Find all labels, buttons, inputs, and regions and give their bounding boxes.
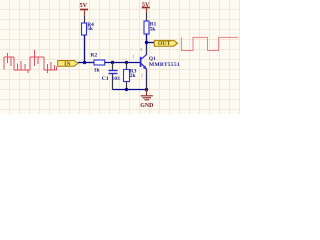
wire collector — [146, 43, 148, 55]
wire power to R1 — [146, 13, 148, 21]
resistor R4 — [82, 22, 95, 35]
resistor R3 — [124, 63, 137, 90]
svg-text:OUT: OUT — [158, 41, 171, 47]
svg-text:IN: IN — [64, 61, 71, 67]
wire R1 to OUT node — [146, 34, 148, 43]
svg-text:1k: 1k — [94, 67, 101, 73]
node IN junction — [83, 61, 86, 64]
capacitor C1 — [102, 63, 120, 90]
wire R2 to base — [105, 62, 141, 64]
svg-text:GND: GND — [140, 103, 153, 109]
transistor Q1 — [141, 55, 180, 70]
node GND junction — [145, 88, 148, 91]
resistor R2 — [90, 53, 104, 74]
svg-text:5k: 5k — [87, 26, 93, 32]
wire R4 to IN node — [84, 35, 86, 63]
svg-text:C1: C1 — [102, 76, 109, 82]
power 5V (left) — [80, 2, 88, 16]
node C1 junction — [111, 61, 114, 64]
port OUT — [154, 40, 177, 47]
node R3-rail junction — [125, 88, 128, 91]
svg-text:MMBT5551: MMBT5551 — [149, 62, 180, 68]
wire IN to R2 — [78, 62, 94, 64]
wire emitter to rail — [146, 69, 148, 89]
svg-text:2: 2 — [141, 73, 143, 78]
power 5V (right) — [142, 1, 150, 13]
svg-text:1: 1 — [132, 54, 134, 59]
port IN — [58, 61, 78, 68]
node OUT junction — [145, 41, 148, 44]
svg-text:2k: 2k — [130, 73, 136, 79]
svg-text:R2: R2 — [90, 53, 97, 59]
node R3 junction — [125, 61, 128, 64]
clean output waveform — [181, 37, 238, 50]
svg-text:103: 103 — [111, 76, 120, 82]
wire to OUT port — [147, 42, 155, 44]
wire power to R4 — [84, 16, 86, 23]
svg-text:3: 3 — [140, 47, 142, 52]
noisy input waveform — [4, 50, 57, 73]
wire bottom rail — [113, 89, 147, 91]
svg-text:5V: 5V — [80, 2, 88, 9]
ground — [140, 90, 153, 110]
resistor R1 — [144, 21, 157, 34]
svg-text:5k: 5k — [150, 26, 156, 32]
